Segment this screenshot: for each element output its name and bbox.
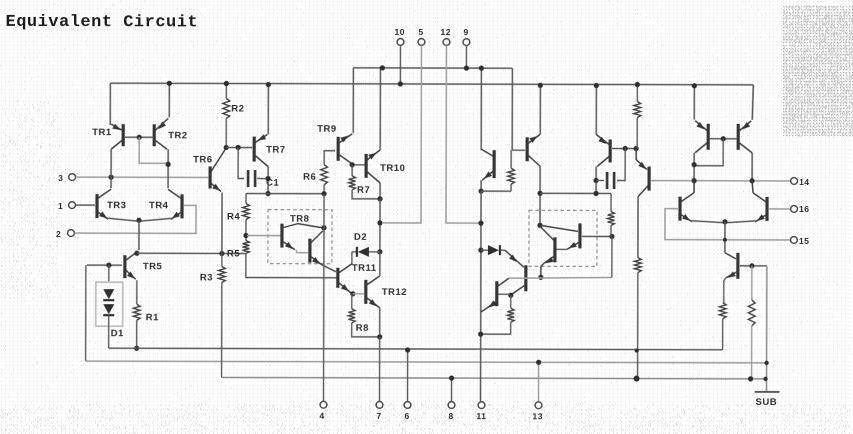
svg-text:3: 3	[58, 173, 63, 183]
wire pin4 riser	[323, 194, 326, 401]
node R4-R5	[243, 233, 248, 238]
svg-text:TR8: TR8	[290, 214, 309, 225]
node pin15 crossing	[723, 238, 727, 242]
svg-text:R6: R6	[303, 172, 316, 183]
resistor Qh load	[634, 258, 641, 379]
wire Ql base to pin16	[769, 208, 790, 210]
svg-text:TR6: TR6	[193, 154, 212, 165]
wire substrate rail B	[86, 361, 766, 363]
wire Qd emitter join	[481, 308, 487, 312]
transistor Qg	[596, 134, 610, 166]
node Qc collector	[508, 293, 513, 298]
diode D1a	[103, 265, 114, 300]
svg-text:7: 7	[376, 411, 381, 421]
box composite	[529, 210, 597, 266]
node C2 left	[593, 178, 598, 183]
transistor Qh	[636, 149, 649, 197]
wire TR7 emitter riser	[267, 84, 269, 135]
wire substrate rail C	[222, 377, 765, 378]
node Qg base	[634, 146, 639, 151]
wire Qf emitter down	[541, 263, 544, 277]
svg-text:5: 5	[418, 27, 423, 37]
svg-text:4: 4	[319, 411, 324, 421]
node bias-bus	[635, 82, 640, 87]
transistor TR1	[92, 124, 123, 149]
wire TR10 collector down	[379, 199, 381, 252]
node C2 riser tap	[623, 146, 628, 151]
pin 1	[58, 201, 75, 211]
wire Qi-Qj base link	[709, 138, 737, 140]
wire Qa emitter to R	[481, 190, 511, 192]
diode D2	[352, 232, 380, 257]
node R7 bottom	[377, 196, 382, 201]
pin 12	[440, 27, 451, 45]
svg-text:TR2: TR2	[168, 130, 187, 141]
wire TR1-TR2 base link	[124, 136, 153, 138]
node R2 bottom	[224, 145, 229, 150]
diode D1b	[103, 304, 124, 348]
svg-text:TR10: TR10	[380, 163, 405, 174]
resistor R3	[200, 253, 226, 377]
box TR8	[268, 210, 332, 264]
wire TR8 base feed	[247, 235, 281, 237]
node mirror tap	[537, 191, 542, 196]
node Qi collector tie	[692, 162, 697, 167]
wire pin14 line	[651, 180, 790, 182]
resistor R8	[348, 294, 378, 337]
transistor TR8b	[310, 231, 336, 272]
svg-text:13: 13	[532, 411, 542, 421]
transistor TR3	[97, 189, 127, 219]
wire TR3-TR4 tail	[107, 218, 172, 221]
node Qb-emitter-bus	[538, 83, 543, 88]
transistor TR12	[366, 276, 407, 308]
wire TR9 emitter riser	[352, 68, 354, 133]
node TR9 collector	[350, 162, 355, 167]
node Qg-bus	[594, 83, 599, 88]
ground SUB	[755, 392, 780, 408]
transistor Ql	[753, 193, 767, 222]
wire collector tap to R5 node	[137, 252, 246, 254]
wire base node y148	[226, 146, 252, 148]
resistor Qm emitter	[719, 303, 726, 350]
resistor R2	[223, 83, 245, 147]
node mirror join	[593, 191, 598, 196]
transistor TR8a	[282, 224, 322, 253]
node TR5 base	[106, 263, 111, 268]
node Qj-out	[749, 178, 754, 183]
wire VCC bus (upper rail y84)	[110, 83, 753, 85]
svg-text:2: 2	[56, 229, 61, 239]
wire pin1 to TR3 base	[76, 204, 95, 206]
wire Qh collector column	[637, 197, 639, 258]
node Qe base	[609, 234, 614, 239]
node R1 bottom	[134, 346, 139, 351]
wire Qm emitter to rail A	[724, 278, 726, 303]
node Qa emitter	[478, 189, 483, 194]
node TR6-emitter on tap wire	[219, 251, 224, 256]
resistor Qd bleed	[483, 295, 515, 334]
pin 8	[448, 375, 455, 421]
svg-text:9: 9	[463, 27, 468, 37]
wire TR1 collector	[110, 149, 112, 188]
svg-text:16: 16	[799, 204, 809, 214]
title	[5, 13, 198, 33]
svg-text:14: 14	[799, 177, 809, 187]
svg-text:D1: D1	[111, 328, 124, 339]
svg-text:12: 12	[440, 27, 450, 37]
wire TR12 collector	[379, 252, 381, 276]
wire substrate column	[766, 266, 768, 392]
transistor TR11	[338, 263, 377, 293]
transistor Qj	[738, 121, 752, 153]
svg-text:TR7: TR7	[266, 145, 285, 156]
resistor R6	[303, 151, 335, 194]
wire bias divider column	[607, 193, 614, 277]
wire TR6 emitter to R3	[221, 192, 223, 253]
svg-text:R2: R2	[231, 103, 244, 114]
node pin5 tap	[377, 220, 382, 225]
node diode tap	[478, 248, 483, 253]
node Qm base R tap	[749, 263, 754, 268]
wire R5 bottom to TR11 base	[246, 254, 337, 278]
node pin12 tap	[478, 221, 483, 226]
transistor Qi	[695, 121, 708, 153]
svg-text:SUB: SUB	[756, 397, 778, 408]
svg-text:TR11: TR11	[352, 263, 377, 274]
svg-text:TR9: TR9	[317, 124, 336, 135]
node R6 bottom	[321, 191, 326, 196]
wire Ql collector	[752, 181, 753, 193]
pin 4	[319, 401, 326, 420]
diode bias	[481, 245, 505, 255]
wire Qb collector drop	[539, 166, 541, 225]
node R8 bottom	[377, 334, 382, 339]
wire pin7 drop	[379, 337, 381, 401]
node D2 anode	[377, 249, 382, 254]
node mirror bases	[721, 136, 726, 141]
svg-text:R5: R5	[227, 248, 240, 259]
node Qi-bus	[692, 83, 697, 88]
svg-text:6: 6	[404, 411, 409, 421]
node TR2-emitter-bus	[167, 81, 172, 86]
transistor Qd	[487, 278, 510, 308]
pin 2	[56, 229, 74, 239]
resistor R5	[227, 240, 249, 259]
pin 9	[463, 27, 470, 68]
node composite input	[537, 223, 542, 228]
svg-text:D2: D2	[354, 232, 367, 243]
pin 16	[791, 204, 810, 214]
svg-text:11: 11	[476, 411, 486, 421]
wire base-to-collector tie	[139, 137, 166, 163]
node base-R rail C	[748, 376, 753, 381]
resistor bias top	[634, 85, 641, 149]
node pin10-bus	[398, 81, 403, 86]
pin 13	[532, 360, 543, 422]
wire left loop to bottom rail	[85, 265, 87, 361]
wire tail to TR5	[138, 220, 140, 250]
node TR7-emitter-bus	[266, 82, 271, 87]
resistor R4	[227, 193, 250, 240]
wire Qg emitter riser	[595, 85, 597, 134]
node output tail	[722, 219, 727, 224]
svg-text:R8: R8	[356, 323, 369, 334]
node Qi-out	[691, 178, 696, 183]
node pin9-bus	[464, 65, 469, 70]
wire Qi collector	[693, 153, 695, 181]
pin 5	[418, 27, 425, 45]
transistor Qa	[481, 149, 494, 180]
node Qh-railC	[634, 376, 640, 382]
wire bus to Qb base drop	[511, 68, 513, 150]
wire TR9 collector to TR10 base	[352, 164, 365, 166]
svg-text:1: 1	[58, 201, 63, 211]
resistor Qb-base-emitter	[508, 150, 515, 191]
transistor Qb	[527, 134, 540, 166]
svg-text:TR12: TR12	[382, 287, 407, 298]
node railB-sub	[764, 361, 768, 365]
wire inner bus (y68)	[353, 67, 512, 69]
pin 11	[476, 402, 486, 421]
node pin3 junction	[108, 175, 113, 180]
resistor R1	[133, 280, 159, 348]
wire Qg base	[612, 147, 636, 149]
wire pin12 to output node	[446, 46, 479, 224]
wire diode to Qc emitter	[505, 250, 524, 267]
node driver base	[538, 275, 543, 280]
wire pin2 to TR4 base	[74, 205, 196, 233]
node TR8 collectors	[321, 225, 326, 230]
svg-text:8: 8	[448, 411, 453, 421]
transistor TR6	[193, 149, 225, 191]
wire TR10 emitter riser	[379, 68, 381, 150]
wire TR11 emitter to TR12 base	[353, 293, 364, 295]
svg-text:TR1: TR1	[92, 127, 112, 138]
pin 14	[791, 177, 810, 187]
svg-text:R3: R3	[200, 272, 213, 283]
wire TR10 collector	[379, 183, 381, 199]
wire compensation node y194	[246, 193, 324, 195]
wire bus corner to Qj	[752, 85, 753, 120]
wire Qk base to pin15	[665, 209, 791, 240]
resistor Qm base	[748, 266, 755, 379]
svg-text:10: 10	[394, 27, 404, 37]
node TR5 collector tap	[134, 251, 139, 256]
resistor R7	[349, 165, 380, 199]
box D1	[96, 282, 123, 326]
svg-text:TR4: TR4	[149, 200, 169, 211]
svg-text:TR5: TR5	[143, 261, 163, 272]
node R2 top	[224, 81, 229, 86]
wire Qa collector riser	[480, 68, 482, 150]
wire ground rail A	[109, 348, 723, 350]
node Qh-railA	[635, 349, 639, 353]
node C1 tap	[236, 145, 241, 150]
wire TR2 emitter riser	[168, 83, 170, 117]
wire Qj collector	[751, 153, 753, 181]
node TR11 emitter	[350, 291, 355, 296]
capacitor C1	[248, 170, 279, 189]
node tail	[136, 218, 141, 223]
wire tap to C2 node	[540, 192, 611, 194]
wire TR5 base	[87, 264, 122, 266]
svg-text:15: 15	[799, 236, 809, 246]
svg-text:R1: R1	[146, 312, 159, 323]
transistor Qm	[725, 253, 767, 279]
svg-text:TR3: TR3	[107, 200, 126, 211]
capacitor C2	[596, 148, 625, 189]
svg-text:R7: R7	[357, 185, 370, 196]
node bleed join	[478, 332, 483, 337]
transistor TR2	[154, 118, 188, 149]
transistor Qe	[567, 223, 610, 249]
pin 7	[376, 401, 383, 420]
node Qa-bus	[479, 66, 484, 71]
node base link	[137, 135, 142, 140]
pin 3	[58, 173, 75, 183]
svg-text:Equivalent Circuit: Equivalent Circuit	[5, 13, 198, 33]
transistor Qc	[509, 254, 526, 294]
svg-text:R4: R4	[227, 211, 240, 222]
transistor TR5	[125, 251, 163, 279]
wire Qi emitter riser	[693, 86, 695, 120]
wire TR7 collector	[267, 167, 269, 194]
transistor Qf	[544, 237, 555, 263]
wire mirror base tie	[696, 139, 723, 166]
wire TR12 emitter	[379, 308, 381, 337]
pin 6	[404, 347, 411, 421]
wire Qe emitter to Qf base	[556, 248, 567, 250]
wire Qb emitter riser	[539, 85, 541, 134]
node TR2 collector	[166, 162, 171, 167]
pin 10	[394, 27, 405, 84]
transistor TR9	[317, 124, 352, 164]
node TR10-bus	[380, 65, 385, 70]
wire TR2 collector	[167, 149, 169, 188]
wire Qa emitter down	[480, 180, 482, 191]
pin 15	[791, 236, 810, 246]
transistor TR4	[149, 189, 182, 219]
wire driver base line	[509, 277, 612, 278]
wire output tail	[691, 221, 756, 223]
wire tail to Qm	[724, 222, 726, 253]
wire Qg collector down	[595, 166, 597, 193]
transistor TR10	[366, 150, 405, 183]
wire Qb base	[512, 149, 525, 151]
transistor TR7	[254, 134, 286, 166]
wire pin5 to TR10 node	[383, 45, 421, 223]
wire C1 left lead	[238, 148, 244, 179]
node TR7 collector	[265, 191, 270, 196]
wire output column	[480, 191, 483, 401]
wire bus corner to TR1 emitter	[109, 83, 111, 125]
node C1 right	[265, 176, 270, 181]
transistor Qk	[680, 193, 694, 222]
wire Qk collector	[693, 181, 695, 193]
wire pin3 to TR6 base	[76, 176, 208, 178]
wire composite collector links	[540, 225, 578, 240]
node railC-sub	[763, 377, 767, 381]
wire D2 to TR11 collector	[351, 252, 353, 265]
